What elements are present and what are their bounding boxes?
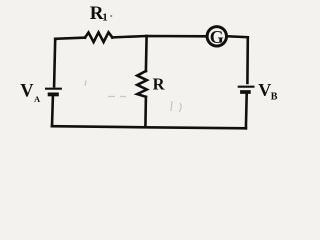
stray dot after R1 [110,15,112,17]
wire: top-right segment (galvanometer to right corner) [227,35,247,39]
svg-text:R: R [153,74,166,93]
faint scan smudges [85,81,181,113]
battery VA short thick plate [48,93,59,97]
wire: left branch upper (battery VA up to top-left corner) [54,39,56,86]
svg-text:A: A [34,94,41,104]
label VA [20,82,41,104]
battery VB long plate [238,86,255,88]
svg-text:G: G [210,27,224,47]
battery VB short thick plate [240,90,251,94]
resistor R (vertical zigzag) [137,71,147,97]
paper background [0,0,286,138]
resistor R1 (zigzag on top wire) [85,32,112,42]
battery VA long plate [45,88,62,90]
wire: middle branch lower (resistor R to bottom wire) [144,97,147,127]
svg-text:1: 1 [102,11,108,23]
svg-text:V: V [258,80,271,100]
label VB [258,80,278,102]
galvanometer U1 circle [207,27,226,46]
label R1 [90,3,108,24]
wire: middle branch upper (node to resistor R) [145,36,148,71]
wire: top-middle segment (R1 to galvanometer) [112,36,206,37]
wire: right branch upper (corner down to battery VB) [246,37,249,84]
svg-text:V: V [20,82,34,102]
wire: right branch lower (battery VB to bottom corner) [245,94,248,128]
wire: top-left segment (left corner to R1) [55,38,85,39]
svg-text:B: B [271,91,278,102]
wire: bottom wire [52,126,246,128]
wire: left branch lower (bottom corner up to battery VA) [51,96,55,126]
